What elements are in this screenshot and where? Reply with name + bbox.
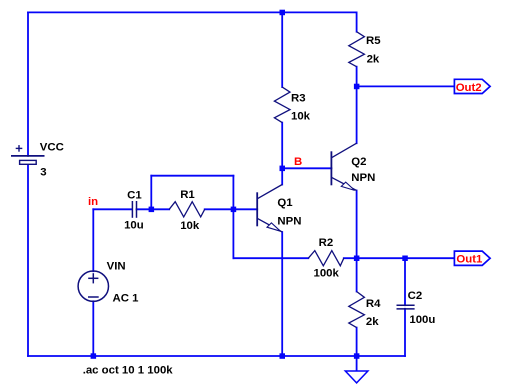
wire VIN bottom lead [92, 301, 94, 356]
voltage source VCC battery [11, 145, 45, 164]
svg-text:AC 1: AC 1 [113, 293, 140, 305]
svg-text:R5: R5 [366, 35, 381, 47]
junction C2 Out1 [402, 256, 408, 262]
wire VIN top lead [92, 209, 94, 271]
svg-text:2k: 2k [367, 54, 380, 66]
junction top rail R3 [280, 10, 286, 16]
wire left rail upper [27, 12, 29, 156]
wire bridge top [151, 175, 233, 177]
svg-text:NPN: NPN [277, 215, 301, 227]
wire bridge left leg [150, 176, 152, 210]
wire R5 bottom to Q2 collector [356, 67, 358, 144]
junction VIN bottom rail [91, 353, 97, 359]
junction R4 ground rail [354, 353, 360, 359]
svg-text:R3: R3 [291, 92, 306, 104]
transistor Q2 [331, 143, 356, 190]
wire B row to Q2 base [282, 167, 331, 169]
wire in row to C1 [93, 208, 132, 210]
wire R2 to Out1 [344, 257, 455, 259]
wire Q1 collector stub [281, 168, 283, 184]
wire top rail [28, 11, 357, 13]
svg-text:10k: 10k [291, 111, 311, 123]
node B junction [280, 166, 286, 172]
svg-text:R4: R4 [366, 298, 381, 310]
resistor R3 [274, 87, 290, 123]
port Out1 [454, 251, 490, 265]
svg-text:R1: R1 [180, 189, 195, 201]
svg-text:R2: R2 [319, 237, 334, 249]
ground [345, 371, 368, 383]
svg-text:Q1: Q1 [277, 197, 293, 209]
port Out2 [454, 79, 490, 94]
svg-text:Out1: Out1 [456, 254, 483, 266]
wire R4 bottom lead [356, 328, 358, 356]
svg-text:100u: 100u [409, 314, 435, 326]
junction R1 base [231, 207, 237, 213]
svg-text:B: B [294, 156, 302, 168]
wire Q1 emitter column [281, 232, 283, 356]
svg-text:.ac oct 10 1 100k: .ac oct 10 1 100k [83, 365, 174, 377]
resistor R1 [169, 202, 205, 217]
wire bridge right leg down [232, 176, 234, 259]
svg-text:C1: C1 [127, 190, 142, 202]
wire R5 top lead [356, 12, 358, 31]
svg-text:10u: 10u [124, 220, 144, 232]
wire C2 bottom lead [404, 309, 406, 356]
svg-text:100k: 100k [314, 267, 340, 279]
svg-text:VCC: VCC [40, 141, 64, 153]
wire base node to R2 [233, 257, 308, 259]
transistor Q1 [257, 185, 282, 233]
resistor R4 [349, 292, 365, 328]
capacitor C1 [132, 201, 136, 218]
wire C1 to R1 [137, 208, 170, 210]
svg-text:10k: 10k [180, 220, 200, 232]
svg-text:in: in [88, 196, 98, 208]
wire R3 top lead [281, 12, 283, 87]
wire Q2 emitter column [356, 191, 358, 259]
wire R1 to Q1 base [205, 208, 258, 210]
resistor R2 [308, 251, 344, 266]
resistor R5 [349, 32, 365, 67]
svg-text:2k: 2k [366, 316, 379, 328]
wire left rail lower [27, 164, 29, 356]
wire R4 top lead [356, 258, 358, 291]
svg-text:C2: C2 [408, 290, 423, 302]
svg-text:VIN: VIN [107, 260, 126, 272]
svg-text:Q2: Q2 [351, 156, 366, 168]
wire bottom rail [28, 355, 405, 357]
junction emitter column rail [280, 353, 286, 359]
svg-text:NPN: NPN [351, 172, 375, 184]
wire C2 top lead [404, 258, 406, 305]
wire R3 bottom lead [281, 123, 283, 169]
junction R2 emitter R4 [354, 256, 360, 262]
voltage source VIN [78, 271, 108, 301]
svg-text:Out2: Out2 [456, 82, 482, 94]
wire ground stub [356, 356, 358, 371]
junction R5 Out2 [354, 84, 360, 90]
svg-text:3: 3 [40, 167, 46, 179]
junction C1 R1 bridge [149, 207, 155, 213]
wire Out2 row [357, 85, 455, 87]
capacitor C2 [397, 305, 415, 309]
